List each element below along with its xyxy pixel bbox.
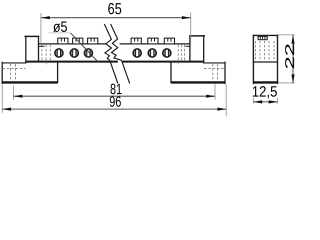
right clamp block right edge [203,36,205,63]
right clamp block left edge [189,36,191,62]
side view bottom edge (thick) [253,81,278,83]
screw tab slot ticks [61,38,171,41]
terminal screw tabs on top of bar [58,38,175,44]
label ø5 [53,21,67,32]
left foot top edge [2,62,26,64]
right foot top edge [204,62,225,64]
dimension 12,5 arrows [253,100,262,103]
hidden dashed lines under bar (right) [178,45,184,65]
dimension 22 extension lines [278,35,294,83]
side view hidden dashed columns [255,41,274,61]
side view screw rect [258,37,267,40]
dimension text 22 (rotated) [285,44,294,68]
dimension 81 line [14,95,216,97]
dimension text 12,5 [253,86,277,98]
dimension 81 arrows [14,95,23,98]
dimension 22 line [292,35,294,83]
hidden dashed lines under bar (left) [42,45,50,65]
dimension text 81 [111,84,122,95]
dimension 96 extension lines [2,84,226,116]
break line right [111,24,130,84]
dimension 96 line [2,108,226,110]
hidden dashed lines in left foot [3,64,26,81]
left clamp block top edge [25,35,38,37]
side view screw ticks [260,37,265,40]
dimension text 96 [110,96,121,107]
dimension text 65 [108,3,121,14]
dimension 81 extension lines [14,84,216,100]
left foot left edge [1,62,3,83]
bar bottom edge (thick, interrupted by break) [26,61,204,63]
dimension 12,5 line [253,101,277,103]
left pedestal right edge [57,62,59,83]
right pedestal left edge [170,62,172,83]
dimension 65 arrows [41,16,50,19]
dimension 22 arrows [291,35,294,44]
dimension 65 extension lines [41,13,191,43]
right clamp block top edge [190,35,204,37]
side view outline [253,35,277,83]
left clamp block left edge [25,36,27,63]
bar top edge segment 1 [39,43,107,45]
dimension 96 arrows [2,108,11,111]
dimension 65 line [41,17,191,19]
break line left [104,24,118,84]
feet bottom edges (thick) [2,81,225,83]
left clamp block right edge [38,36,40,61]
busbar front view outline [2,36,225,84]
clamp ledge right [185,45,190,47]
bar top edge segment 2 [120,43,190,45]
dimension text 12,5 background [252,85,279,98]
dimension 12,5 extension lines [253,85,277,104]
clamp ledge left [39,45,45,47]
right foot right edge [224,62,226,83]
hidden dashed lines in right foot [204,64,225,81]
leader line for ø5 [49,32,71,34]
terminal screw holes (ø5 heads: ring, gray lunes, white slot) [55,49,171,57]
